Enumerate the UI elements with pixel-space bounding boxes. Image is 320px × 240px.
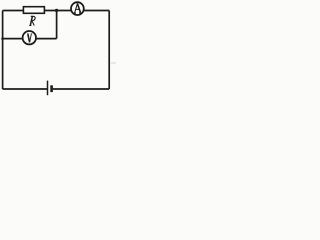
battery cell bbox=[48, 81, 53, 96]
wire voltmeter to right riser bbox=[36, 38, 56, 40]
label V pin bbox=[27, 34, 32, 42]
wire left to voltmeter bbox=[3, 38, 22, 40]
voltmeter V bbox=[23, 31, 36, 44]
wire right side bbox=[108, 11, 110, 90]
wire bottom-left (battery to corner) bbox=[3, 88, 48, 90]
resistor R bbox=[23, 7, 44, 14]
wire ammeter to top-right corner bbox=[84, 10, 109, 12]
battery short thick plate bbox=[50, 85, 53, 92]
label A pin bbox=[74, 3, 81, 13]
scan smudge bbox=[111, 62, 116, 64]
wire bottom-right (corner to battery) bbox=[53, 88, 109, 90]
wire left side bbox=[2, 11, 4, 90]
wire riser up to node bbox=[56, 11, 58, 39]
node voltmeter tap left bbox=[1, 37, 4, 40]
wire resistor to node bbox=[45, 10, 71, 12]
ammeter A bbox=[71, 2, 84, 15]
label R bbox=[29, 16, 35, 25]
node junction dot bbox=[55, 9, 58, 12]
battery long thin plate bbox=[47, 81, 49, 96]
wire top-left (battery+ to resistor) bbox=[3, 10, 24, 12]
